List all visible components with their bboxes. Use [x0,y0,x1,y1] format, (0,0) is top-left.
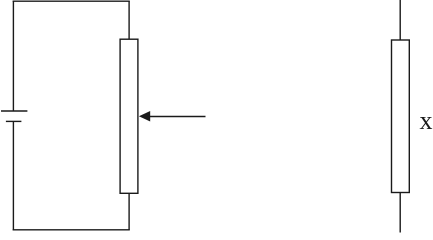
svg-text:x: x [420,106,433,135]
